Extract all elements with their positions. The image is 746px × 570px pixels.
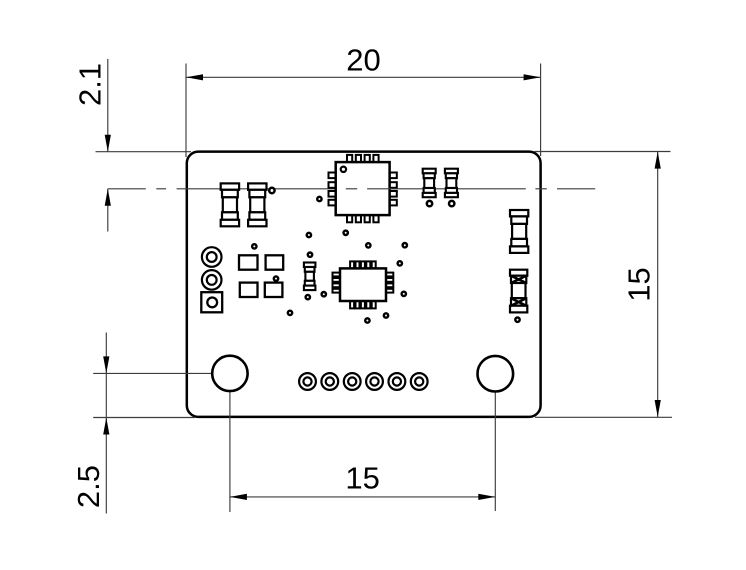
IC U2 (QFP) [333, 261, 394, 308]
dim 15 right arrow down [655, 400, 661, 417]
dim 2.1 line lower [107, 189, 109, 232]
svg-text:2.1: 2.1 [73, 63, 108, 106]
via V6 [274, 276, 278, 280]
dim 20 arrow right [524, 74, 541, 80]
dim 15 bottom extension line left (from hole H1) [229, 385, 231, 513]
via V8 [317, 197, 321, 201]
via V9 [344, 231, 348, 235]
dim 2.1 line upper [107, 59, 109, 152]
dim 15 right extension line top [535, 151, 671, 153]
pad P3 (square) [201, 292, 222, 312]
dim 20 line [186, 76, 541, 78]
diode D1 [510, 270, 527, 313]
via V16 [322, 292, 326, 296]
dim 20 arrow left [186, 74, 203, 80]
via V19 [384, 313, 388, 317]
via V10 [307, 233, 311, 237]
jumper pad S4 [265, 283, 283, 297]
jumper pad S1 [239, 255, 258, 269]
pin hole PH2 [321, 373, 338, 390]
dim 2.1 extension line (board top) [96, 151, 192, 153]
via V2 [427, 201, 432, 206]
jumper pad S3 [240, 283, 258, 297]
board outline (PCB 20x15) [187, 152, 541, 417]
pad P2 [202, 270, 222, 290]
via V5 [252, 244, 256, 248]
dim 15 bottom arrow left [230, 494, 247, 500]
centerline dashes inside U1 [346, 188, 397, 190]
via V18 [365, 318, 369, 322]
dim 15 bottom arrow right [478, 494, 495, 500]
jumper pad S2 [266, 255, 284, 269]
dim 2.5 extension line (board bottom) [93, 417, 195, 419]
capacitor C2 [445, 169, 458, 198]
via V12 [403, 243, 407, 247]
dim 20 extension line left [185, 64, 187, 158]
svg-text:20: 20 [346, 42, 380, 77]
dim 2.5 arrow down [103, 356, 109, 373]
via V13 [308, 253, 312, 257]
pin hole PH1 [299, 373, 316, 390]
via V17 [306, 295, 310, 299]
dim 15 bottom line [230, 496, 495, 498]
dim 15 right line [657, 152, 659, 417]
dim 15 right extension line bottom [535, 416, 672, 418]
resistor R4 [510, 210, 528, 253]
via V11 [366, 243, 370, 247]
dim 15 right arrow up [655, 152, 661, 169]
pad P1 [202, 247, 222, 267]
dim 2.1 arrow down [105, 135, 111, 152]
pin hole PH4 [366, 373, 383, 390]
mounting hole H2 [478, 356, 514, 392]
dim 2.5 arrow up [103, 418, 109, 435]
resistor R2 [248, 183, 266, 226]
via V15 [402, 292, 406, 296]
mounting hole H1 [212, 356, 247, 391]
via V4 [515, 318, 519, 322]
via V14 [398, 261, 402, 265]
centerline (dash-dot horizontal axis) [108, 188, 595, 190]
pin hole PH3 [344, 373, 361, 390]
via V1 [269, 188, 274, 193]
svg-text:15: 15 [621, 267, 656, 301]
U1 pin-1 marker [341, 167, 346, 172]
via V3 [449, 201, 454, 206]
dim 20 extension line right [540, 64, 542, 157]
svg-text:2.5: 2.5 [71, 465, 106, 508]
pin hole PH6 [411, 373, 428, 390]
pin hole PH5 [389, 373, 406, 390]
via V7 [288, 311, 292, 315]
dim 2.5 extension line (hole center) [93, 372, 230, 374]
dim 2.1 arrow up [105, 189, 111, 206]
svg-text:15: 15 [345, 461, 379, 496]
resistor R1 [221, 183, 239, 226]
capacitor C1 [423, 169, 436, 198]
resistor R3 [304, 263, 316, 291]
dim 15 bottom extension line right (from hole H2) [494, 385, 496, 512]
dim 2.5 line [105, 333, 107, 514]
IC U1 (QFP) [329, 155, 397, 222]
